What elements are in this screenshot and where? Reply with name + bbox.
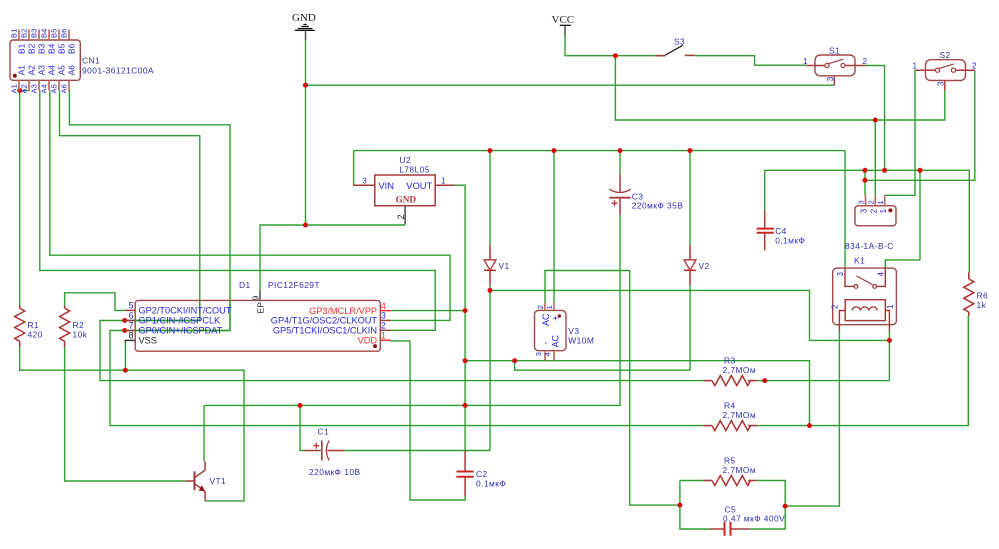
wire A6 overlay into D1 — [125, 300, 230, 331]
wire A5 to pin6 — [60, 91, 200, 321]
svg-text:1k: 1k — [977, 300, 987, 310]
node rail V2 — [688, 148, 693, 153]
wire C1 left branch — [300, 405, 305, 450]
wire R2 top to pin5 — [65, 293, 125, 311]
wire R3 right to coil net — [757, 380, 890, 382]
wire U2 pin2 GND to EP — [260, 225, 405, 290]
wire R2 bottom to VT1 base — [65, 347, 186, 481]
svg-text:V2: V2 — [699, 261, 710, 271]
pin 8 VSS — [125, 340, 135, 342]
K1 contact pin3 — [845, 268, 854, 286]
node GND-U2 — [303, 223, 308, 228]
wire R5 left stub wire — [680, 480, 704, 482]
svg-text:8: 8 — [129, 331, 134, 341]
svg-text:VT1: VT1 — [210, 476, 227, 486]
K1 coil — [845, 300, 885, 321]
svg-text:2: 2 — [972, 62, 977, 71]
wire GND stem down — [305, 40, 307, 225]
svg-text:A1: A1 — [17, 65, 27, 76]
wire A1 A2 jog — [20, 90, 30, 92]
svg-text:1: 1 — [913, 62, 918, 71]
svg-text:B6: B6 — [60, 29, 69, 38]
svg-text:S2: S2 — [940, 50, 951, 60]
svg-text:GP0/CIN+/ICSPDAT: GP0/CIN+/ICSPDAT — [139, 326, 223, 336]
svg-text:D1: D1 — [239, 280, 251, 290]
svg-text:B3: B3 — [37, 43, 47, 54]
node R4-VOUT — [807, 423, 812, 428]
svg-text:0,1мкФ: 0,1мкФ — [775, 236, 805, 246]
node V1 cathode — [488, 288, 493, 293]
wire K1 pin3 up to rail — [844, 151, 846, 269]
svg-text:3: 3 — [935, 81, 945, 86]
svg-text:2: 2 — [867, 200, 876, 204]
node X1pin3 net1 — [863, 168, 868, 173]
svg-text:B1: B1 — [10, 29, 19, 38]
K1 coil pin1 — [885, 311, 889, 332]
node VCC-X1pin2 — [873, 118, 878, 123]
svg-text:2: 2 — [381, 321, 386, 331]
wire X1 pin3 up — [864, 170, 866, 195]
svg-text:B5: B5 — [50, 29, 59, 38]
K1 contact pin4 — [877, 268, 886, 286]
switch S3 — [656, 37, 695, 56]
capacitor C1 — [305, 427, 361, 478]
svg-text:A6: A6 — [60, 84, 69, 93]
node R5C5 left — [677, 503, 682, 508]
pin 5 — [125, 309, 135, 311]
svg-text:GP2/T0CKI/INT/COUT: GP2/T0CKI/INT/COUT — [139, 306, 232, 316]
node K1pin4 net — [918, 168, 923, 173]
capacitor C4 — [757, 210, 806, 250]
bridge V3 W10M — [534, 303, 595, 361]
svg-text:B2: B2 — [27, 43, 37, 54]
node rail V1 — [488, 148, 493, 153]
svg-text:A2: A2 — [20, 84, 29, 93]
wire V3 pin2 to R5C5 left — [545, 271, 680, 506]
wire A1 to R1 — [19, 91, 21, 306]
wire S2 pin2 down — [865, 70, 975, 180]
wire pin7 to R4 — [110, 331, 704, 426]
node X1pin3 net2 — [863, 178, 868, 183]
pin 2 GND — [404, 206, 406, 225]
svg-text:420: 420 — [28, 330, 43, 340]
svg-text:S1: S1 — [829, 45, 840, 55]
wire V1 to relay coil — [490, 290, 889, 340]
wire GND to S1 pin3 — [306, 84, 835, 86]
svg-text:2: 2 — [396, 214, 406, 219]
svg-text:R4: R4 — [724, 401, 736, 411]
wire V3 pin1 up to rail — [553, 151, 555, 303]
connector CN1 — [10, 29, 154, 94]
node C1 plus — [298, 403, 303, 408]
node V2-V3 — [512, 358, 517, 363]
svg-text:GP1/CIN-/ICSPCLK: GP1/CIN-/ICSPCLK — [139, 316, 222, 326]
wire VOUT net right — [465, 361, 809, 426]
svg-text:S3: S3 — [674, 37, 685, 47]
wire U2 pin1 output — [455, 185, 465, 451]
node VOUT-VDDline — [463, 403, 468, 408]
diode V1 — [484, 245, 510, 286]
resistor R6 — [964, 272, 988, 316]
svg-text:GP5/T1CKI/OSC1/CLKIN: GP5/T1CKI/OSC1/CLKIN — [273, 326, 377, 336]
pin 9 EP — [259, 290, 261, 300]
svg-text:A6: A6 — [67, 65, 77, 76]
wire S3 to S1 pin1 — [695, 56, 806, 65]
svg-text:0.47 мкФ 400V: 0.47 мкФ 400V — [723, 514, 785, 524]
wire V2 top — [689, 151, 691, 246]
svg-text:A3: A3 — [30, 84, 39, 93]
svg-text:AC: AC — [541, 313, 551, 326]
svg-text:GND: GND — [396, 195, 417, 205]
svg-text:GP4/T1G/OSC2/CLKOUT: GP4/T1G/OSC2/CLKOUT — [271, 316, 378, 326]
node A1-A2 — [17, 88, 22, 93]
wire U2 pin3 — [353, 151, 355, 186]
svg-text:B6: B6 — [67, 43, 77, 54]
relay K1 834-1A-B-C — [831, 241, 897, 331]
svg-text:3: 3 — [362, 176, 367, 185]
node VOUT-V3 — [463, 358, 468, 363]
svg-text:220мкФ 10В: 220мкФ 10В — [309, 467, 361, 477]
power VCC — [552, 14, 575, 36]
svg-text:2: 2 — [863, 57, 868, 66]
wire coil pin1 to R3 right — [888, 331, 890, 381]
resistor R1 — [15, 306, 43, 348]
wire R5C5 right to coil pin2 — [785, 331, 839, 506]
svg-text:834-1A-B-C: 834-1A-B-C — [845, 241, 894, 251]
svg-text:A2: A2 — [27, 65, 37, 76]
switch S2 — [913, 50, 978, 90]
svg-text:220мкФ 35В: 220мкФ 35В — [632, 201, 684, 211]
diode V2 — [684, 245, 710, 285]
svg-text:VDD: VDD — [358, 336, 378, 346]
svg-text:-: - — [541, 342, 551, 345]
wire C2 bottom to VDD pin — [390, 341, 465, 500]
regulator U2 L78L05 — [353, 155, 455, 225]
pin 6 — [125, 320, 136, 322]
svg-text:3: 3 — [857, 200, 866, 204]
svg-text:B4: B4 — [47, 43, 57, 54]
wire C4 top to R6 top — [765, 170, 970, 272]
node VCC branch — [613, 53, 618, 58]
svg-text:V3: V3 — [568, 326, 579, 336]
node pin7 — [122, 328, 127, 333]
svg-text:10k: 10k — [73, 330, 88, 340]
wire VCC down to S3 — [565, 35, 656, 55]
svg-text:A3: A3 — [37, 65, 47, 76]
svg-text:A1: A1 — [10, 84, 19, 93]
svg-text:U2: U2 — [400, 155, 412, 165]
svg-text:9: 9 — [250, 296, 260, 301]
wire AC rail — [354, 150, 845, 152]
svg-text:1: 1 — [803, 57, 808, 66]
pin 7 — [125, 330, 136, 332]
node C4-R3 — [762, 378, 767, 383]
svg-text:C4: C4 — [775, 226, 787, 236]
pin 3 — [380, 319, 391, 321]
svg-text:5: 5 — [129, 301, 134, 311]
wire R5C5 right side — [750, 481, 785, 530]
switch S1 — [803, 45, 868, 85]
pin 1 VDD — [380, 339, 391, 341]
node VSS-R1 — [123, 368, 128, 373]
wire S1 pin2 down — [866, 66, 885, 171]
resistor R3 — [704, 356, 757, 386]
node coil pin1 — [887, 338, 892, 343]
node R5C5 right — [783, 504, 788, 509]
svg-text:C2: C2 — [476, 469, 488, 479]
connector X1 — [855, 195, 896, 226]
svg-text:GP3/MCLR/VPP: GP3/MCLR/VPP — [309, 306, 377, 316]
svg-text:A4: A4 — [40, 84, 49, 93]
wire A5 overlay into D1 — [125, 300, 230, 331]
svg-text:3: 3 — [381, 311, 386, 321]
wire VSS down — [124, 343, 126, 371]
svg-text:W10M: W10M — [568, 336, 594, 346]
resistor R4 — [704, 401, 757, 431]
node GND-S1 — [303, 83, 308, 88]
svg-text:VCC: VCC — [552, 14, 575, 26]
transistor VT1 — [185, 461, 226, 501]
svg-text:CN1: CN1 — [82, 56, 100, 66]
svg-text:3: 3 — [534, 352, 543, 356]
svg-text:R1: R1 — [28, 320, 40, 330]
wire S2 pin1 down to X1 pin1 — [885, 70, 916, 195]
pin 2 — [380, 329, 391, 331]
wire A4 to pin3 — [50, 91, 450, 321]
svg-text:3: 3 — [836, 272, 845, 277]
wire pin6 to R3 — [100, 321, 704, 381]
svg-text:2: 2 — [831, 304, 840, 309]
wire C3 bottom to VDD line — [204, 215, 620, 405]
wire R5C5 left side — [680, 481, 710, 530]
svg-text:EP: EP — [256, 302, 266, 314]
svg-text:1: 1 — [441, 176, 446, 185]
svg-text:6: 6 — [129, 311, 134, 321]
svg-text:B1: B1 — [17, 43, 27, 54]
svg-text:B3: B3 — [30, 29, 39, 38]
svg-text:VSS: VSS — [139, 336, 157, 346]
svg-text:VIN: VIN — [378, 180, 394, 191]
svg-text:B4: B4 — [40, 29, 49, 38]
svg-text:A5: A5 — [57, 65, 67, 76]
wire C1 right to V1 — [345, 450, 491, 452]
svg-text:R2: R2 — [73, 320, 85, 330]
svg-text:2,7МОм: 2,7МОм — [723, 410, 757, 420]
wire A6 to pin7 — [69, 91, 230, 331]
svg-text:B2: B2 — [20, 29, 29, 38]
svg-text:R3: R3 — [724, 356, 736, 366]
svg-text:A5: A5 — [50, 84, 59, 93]
capacitor C2 — [457, 451, 507, 497]
svg-text:R5: R5 — [724, 456, 736, 466]
svg-text:GND: GND — [292, 12, 316, 24]
svg-text:AC: AC — [551, 334, 561, 347]
svg-text:4: 4 — [543, 352, 552, 356]
ground — [292, 12, 316, 40]
wire C3 top — [619, 151, 621, 175]
wire K1 pin4 up — [885, 170, 920, 268]
node pin6 — [122, 318, 127, 323]
svg-text:R6: R6 — [977, 291, 989, 301]
svg-text:2: 2 — [536, 305, 545, 309]
svg-text:1: 1 — [545, 305, 554, 309]
svg-text:9001-36121C00A: 9001-36121C00A — [82, 66, 154, 76]
wire V2 bottom — [515, 285, 690, 370]
wire X1 pin2 up to VCC net — [874, 120, 876, 196]
svg-text:L78L05: L78L05 — [399, 165, 430, 175]
capacitor C5 — [710, 505, 785, 536]
svg-text:VOUT: VOUT — [406, 180, 432, 191]
capacitor C3 — [609, 175, 683, 216]
wire R1 bottom to VT1 emitter — [20, 347, 244, 501]
svg-text:2,7МОм: 2,7МОм — [723, 365, 757, 375]
svg-text:C1: C1 — [318, 427, 330, 437]
svg-text:0.1мкФ: 0.1мкФ — [476, 479, 506, 489]
K1 coil pin2 — [839, 311, 845, 332]
resistor R2 — [60, 306, 88, 347]
pin 3 VIN — [353, 184, 375, 186]
wire VT1 collector — [203, 405, 205, 461]
svg-text:4: 4 — [877, 272, 886, 277]
svg-text:1: 1 — [381, 330, 386, 340]
svg-text:1: 1 — [886, 304, 895, 309]
svg-text:1: 1 — [878, 209, 888, 214]
svg-text:3: 3 — [825, 77, 835, 82]
svg-text:PIC12F629T: PIC12F629T — [268, 280, 320, 290]
node MCLR-VOUT — [463, 308, 468, 313]
svg-text:2,7МОм: 2,7МОм — [723, 465, 757, 475]
wire V1 top — [489, 151, 491, 246]
resistor R5 — [704, 456, 757, 486]
svg-text:2: 2 — [868, 209, 878, 214]
wire VCC branch to S2 pin3 — [615, 56, 944, 120]
node rail V3pin1 — [552, 148, 557, 153]
svg-text:1: 1 — [876, 200, 885, 204]
svg-text:V1: V1 — [499, 261, 510, 271]
node rail C3 — [618, 148, 623, 153]
mcu D1 PIC12F629T — [125, 280, 391, 351]
node S1pin2 net — [882, 168, 887, 173]
wire R4 right to R6 bottom — [757, 316, 968, 426]
wire V1 bottom to C1 — [489, 286, 491, 451]
svg-text:4: 4 — [381, 301, 386, 311]
svg-text:A4: A4 — [47, 65, 57, 76]
pin 1 VOUT — [435, 184, 455, 186]
svg-text:7: 7 — [129, 321, 134, 331]
svg-text:K1: K1 — [854, 256, 865, 266]
wire pin4 to VOUT — [391, 310, 465, 312]
svg-text:3: 3 — [859, 209, 869, 214]
wire A3 to pin2 — [40, 91, 435, 331]
svg-text:B5: B5 — [57, 43, 67, 54]
pin 4 — [380, 310, 391, 312]
